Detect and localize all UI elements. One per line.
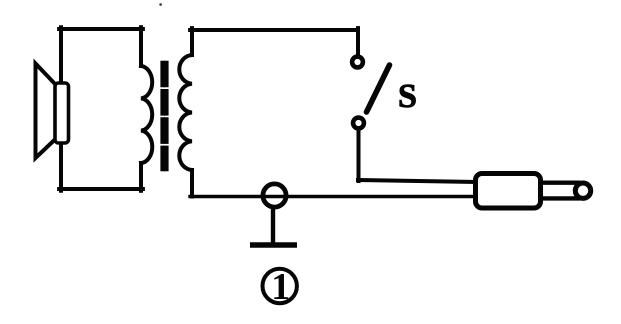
plug P tip ball: [575, 183, 590, 198]
wire right-loop left edge lower: [190, 170, 194, 197]
plug P tip shaft top line: [543, 180, 578, 184]
plug P body: [476, 174, 541, 209]
wire left-loop top edge: [59, 27, 143, 31]
wire left-loop left edge: [59, 27, 63, 191]
plug P tip shaft bottom line: [543, 196, 578, 200]
wire right-loop top edge to switch: [190, 28, 358, 32]
transformer core (dashed line 1): [160, 63, 165, 169]
transformer T primary coil (3 turns): [141, 66, 152, 163]
ground stem: [271, 208, 275, 243]
transformer core (dashed line 2): [164, 63, 169, 169]
wire right-loop left edge upper: [190, 28, 194, 55]
speaker driver rectangle: [55, 83, 69, 143]
switch S blade: [367, 65, 390, 112]
wire left-loop right edge upper: [139, 27, 143, 66]
transformer T secondary coil (4 turns): [179, 55, 192, 170]
switch S top terminal: [352, 57, 363, 68]
ground bar: [250, 242, 297, 248]
wire bottom bus (transformer to plug): [190, 195, 475, 199]
switch S bottom terminal: [353, 118, 364, 129]
svg-text:1: 1: [271, 266, 290, 308]
label circled 1 ring: [263, 269, 297, 303]
node ground tap terminal circle: [263, 184, 286, 207]
wire switch to plug upper conductor: [358, 180, 475, 182]
speaker LS cone: [36, 64, 57, 159]
wire switch bottom vertical: [357, 130, 361, 181]
wire switch feed vertical: [356, 28, 360, 55]
wire left-loop right edge lower: [139, 163, 143, 191]
speck (scan dot): [159, 3, 162, 6]
wire left-loop bottom edge: [59, 187, 143, 191]
svg-text:S: S: [398, 78, 417, 115]
